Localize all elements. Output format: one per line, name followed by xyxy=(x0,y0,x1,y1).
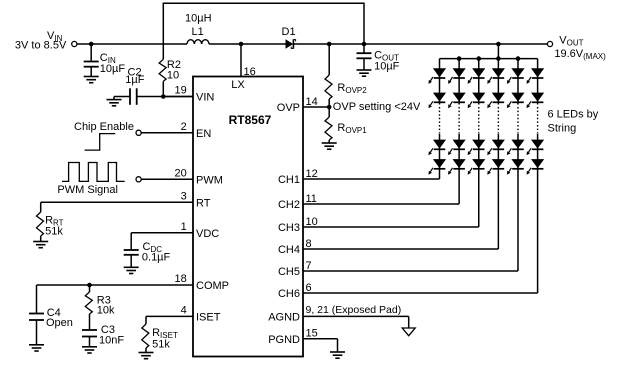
svg-text:PWM Signal: PWM Signal xyxy=(57,184,118,196)
svg-text:10nF: 10nF xyxy=(99,335,124,347)
svg-text:20: 20 xyxy=(175,168,187,180)
svg-text:AGND: AGND xyxy=(268,312,300,324)
svg-text:VIN: VIN xyxy=(196,92,214,104)
svg-text:51k: 51k xyxy=(152,338,170,350)
svg-text:4: 4 xyxy=(181,305,187,317)
svg-text:15: 15 xyxy=(306,328,318,340)
svg-text:L1: L1 xyxy=(192,26,204,38)
svg-text:LX: LX xyxy=(231,79,245,91)
svg-text:10µF: 10µF xyxy=(100,63,126,75)
svg-text:RT8567: RT8567 xyxy=(229,113,272,127)
svg-text:D1: D1 xyxy=(282,26,296,38)
svg-text:CH5: CH5 xyxy=(278,266,300,278)
svg-text:VDC: VDC xyxy=(196,228,219,240)
svg-text:8: 8 xyxy=(306,238,312,250)
svg-text:CH3: CH3 xyxy=(278,222,300,234)
svg-text:OVP: OVP xyxy=(277,102,300,114)
svg-text:51k: 51k xyxy=(45,226,63,238)
svg-text:12: 12 xyxy=(306,168,318,180)
svg-text:PWM: PWM xyxy=(196,175,223,187)
svg-text:11: 11 xyxy=(306,193,317,205)
svg-text:EN: EN xyxy=(196,128,211,140)
svg-text:16: 16 xyxy=(244,66,256,78)
svg-text:String: String xyxy=(548,122,577,134)
svg-text:Chip Enable: Chip Enable xyxy=(74,121,134,133)
svg-text:Open: Open xyxy=(46,317,73,329)
svg-text:6: 6 xyxy=(306,282,312,294)
svg-text:2: 2 xyxy=(181,121,187,133)
svg-text:6 LEDs by: 6 LEDs by xyxy=(548,108,599,120)
svg-text:9, 21 (Exposed Pad): 9, 21 (Exposed Pad) xyxy=(306,304,402,316)
svg-text:10k: 10k xyxy=(97,305,115,317)
svg-text:14: 14 xyxy=(306,96,318,108)
svg-text:3: 3 xyxy=(181,191,187,203)
svg-text:10: 10 xyxy=(167,70,179,82)
svg-text:10µH: 10µH xyxy=(185,13,212,25)
svg-text:CH4: CH4 xyxy=(278,244,300,256)
svg-text:1: 1 xyxy=(181,221,187,233)
svg-text:10: 10 xyxy=(306,216,318,228)
svg-text:ISET: ISET xyxy=(196,312,221,324)
svg-text:1µF: 1µF xyxy=(125,74,144,86)
svg-text:COMP: COMP xyxy=(196,280,229,292)
svg-text:7: 7 xyxy=(306,260,312,272)
svg-text:3V to 8.5V: 3V to 8.5V xyxy=(15,39,67,51)
svg-text:18: 18 xyxy=(175,273,187,285)
svg-text:RT: RT xyxy=(196,198,211,210)
svg-text:0.1µF: 0.1µF xyxy=(142,252,171,264)
svg-text:CH1: CH1 xyxy=(278,174,300,186)
svg-text:OVP setting <24V: OVP setting <24V xyxy=(333,101,421,113)
svg-text:19: 19 xyxy=(175,85,187,97)
svg-text:CH2: CH2 xyxy=(278,199,300,211)
svg-text:10µF: 10µF xyxy=(374,60,400,72)
svg-text:PGND: PGND xyxy=(268,334,300,346)
svg-text:CH6: CH6 xyxy=(278,288,300,300)
